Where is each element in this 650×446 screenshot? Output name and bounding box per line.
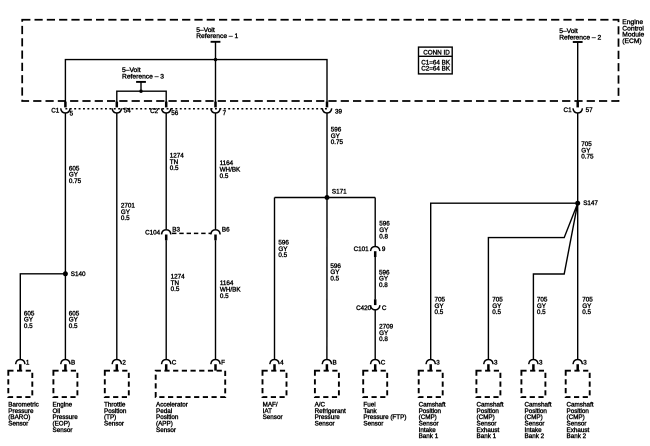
wire: S171 down to A/C refrigerant pressure sensor [326, 198, 328, 360]
A/C refrigerant pressure sensor [315, 371, 346, 428]
svg-text:5: 5 [70, 110, 74, 117]
wire 2701 GY 0.5 pin 54 to TP sensor [116, 113, 118, 360]
svg-text:0.75: 0.75 [331, 139, 344, 146]
svg-text:0.5: 0.5 [537, 309, 546, 316]
wire: bus tap down to pin 7 [215, 60, 217, 106]
wire 1164 WH/BK 0.5 pin 7 to C104 [215, 113, 217, 229]
svg-text:F: F [221, 360, 225, 367]
accelerator pedal position sensor pin F [211, 360, 225, 371]
wire 1164 WH/BK 0.5 C104 to APP pin F [215, 240, 217, 359]
label wire 605 GY 0.5 (EOP) [69, 310, 80, 330]
MAF/IAT sensor [263, 371, 287, 422]
CMP sensor exhaust bank 1 pin 3 [484, 360, 498, 371]
svg-text:Bank 1: Bank 1 [419, 433, 439, 440]
fuel tank pressure (FTP) sensor [363, 371, 406, 428]
svg-text:0.5: 0.5 [582, 309, 591, 316]
barometric pressure (BARO) sensor [8, 371, 38, 428]
pin 7 [211, 102, 227, 117]
svg-text:0.5: 0.5 [121, 215, 130, 222]
svg-text:Sensor: Sensor [363, 421, 383, 428]
svg-text:0.5: 0.5 [69, 323, 78, 330]
svg-text:3: 3 [436, 360, 440, 367]
label wire 596 GY 0.8 (above C101) [379, 221, 390, 241]
pin C1-57 [564, 102, 594, 114]
5-Volt Reference - 1 source [196, 27, 238, 42]
wire 596 GY 0.8 between C101 and C420 [374, 257, 376, 299]
svg-text:Reference – 3: Reference – 3 [122, 73, 164, 80]
svg-text:Sensor: Sensor [156, 427, 176, 434]
svg-text:54: 54 [124, 108, 132, 115]
wire 605 GY 0.75 from pin 5 to S140 [64, 113, 66, 274]
svg-text:Bank 2: Bank 2 [525, 433, 545, 440]
wire: S140 down to EOP sensor [64, 274, 66, 360]
dotted connector row line [65, 108, 327, 110]
label wire 2701 GY 0.5 [121, 203, 136, 223]
svg-text:0.8: 0.8 [379, 282, 388, 289]
wire: S140 branch to BARO sensor [20, 274, 65, 360]
label wire 1164 WH/BK 0.5 (lower) [220, 280, 241, 300]
label wire 605 GY 0.75 [69, 165, 82, 185]
svg-text:B: B [333, 360, 337, 367]
svg-text:C: C [172, 360, 177, 367]
label wire 705 GY 0.5 (CMP intake 2) [537, 297, 548, 317]
label wire 705 GY 0.5 (CMP intake 1) [435, 297, 446, 317]
svg-text:Sensor: Sensor [8, 421, 28, 428]
connector C104 pin B6 [211, 227, 230, 241]
pin 39 [322, 102, 342, 116]
svg-text:0.5: 0.5 [170, 165, 179, 172]
svg-text:3: 3 [494, 360, 498, 367]
svg-text:0.5: 0.5 [492, 309, 501, 316]
svg-text:0.5: 0.5 [220, 173, 229, 180]
svg-text:(ECM): (ECM) [622, 38, 641, 45]
wire 705 GY 0.75 pin 57 to S147 [577, 113, 579, 203]
svg-text:S171: S171 [332, 188, 347, 195]
svg-text:39: 39 [335, 108, 343, 115]
svg-text:0.5: 0.5 [278, 252, 287, 259]
svg-text:Sensor: Sensor [104, 421, 124, 428]
svg-text:C101: C101 [354, 246, 370, 253]
svg-text:S147: S147 [583, 200, 598, 207]
label wire 596 GY 0.5 (A/C) [330, 263, 341, 283]
svg-text:9: 9 [382, 246, 386, 253]
wire: S147 branch to CMP intake bank 1 [431, 203, 578, 359]
wire 2709 GY 0.8 C420 to FTP sensor [374, 310, 376, 360]
splice S171 [325, 188, 348, 200]
MAF/IAT sensor pin 4 [270, 360, 284, 371]
wire: S171 branch to C101 [374, 198, 376, 247]
5-Volt Reference - 2 source [559, 28, 601, 42]
connector C101 pin 9 [354, 246, 386, 257]
svg-text:Bank 2: Bank 2 [567, 433, 587, 440]
splice S140 [63, 271, 86, 278]
svg-text:0.5: 0.5 [435, 309, 444, 316]
ECM label text [622, 19, 644, 45]
camshaft position (CMP) sensor exhaust bank 2 [566, 371, 594, 440]
svg-text:3: 3 [583, 360, 587, 367]
svg-text:S140: S140 [71, 271, 86, 278]
camshaft position (CMP) sensor intake bank 1 [419, 371, 446, 440]
wire 1274 TN 0.5 C104 to APP pin C [165, 240, 167, 359]
label wire 1274 TN 0.5 (lower) [171, 274, 186, 294]
wire: ref-3 sub-bus to pins 54 and 56 [117, 91, 166, 106]
wire: ref-1 drop to bus [215, 42, 217, 60]
svg-text:Sensor: Sensor [53, 427, 73, 434]
svg-text:4: 4 [280, 360, 284, 367]
label wire 605 GY 0.5 (BARO) [24, 310, 35, 330]
wire: S147 down to CMP exhaust bank 2 [577, 203, 579, 359]
svg-text:C104: C104 [145, 230, 161, 237]
svg-text:C: C [381, 360, 386, 367]
svg-text:0.5: 0.5 [171, 286, 180, 293]
CMP sensor exhaust bank 2 pin 3 [573, 360, 587, 371]
wire: S171 branch to MAF/IAT [274, 198, 276, 360]
fuel tank pressure sensor pin C [371, 360, 386, 371]
wire 1274 TN 0.5 pin 56 to C104 [165, 113, 167, 229]
pin C1-5 [51, 102, 73, 118]
connector C104 dashed link [172, 232, 211, 234]
label wire 1274 TN 0.5 (upper) [170, 153, 185, 173]
engine oil pressure sensor pin B [61, 360, 76, 371]
throttle position (TP) sensor [104, 371, 129, 428]
pin 54 [112, 102, 131, 115]
wire: S147 branch to CMP intake bank 2 [533, 203, 577, 359]
svg-text:C1: C1 [51, 108, 60, 115]
5-Volt Reference - 3 source [122, 67, 164, 82]
svg-text:0.5: 0.5 [220, 293, 229, 300]
svg-text:0.75: 0.75 [69, 178, 82, 185]
svg-text:C2: C2 [150, 108, 159, 115]
wire 596 GY 0.75 pin 39 to S171 [326, 113, 328, 198]
connector C420 pin C [356, 299, 387, 312]
CMP sensor intake bank 2 pin 3 [529, 360, 543, 371]
svg-text:0.75: 0.75 [581, 154, 594, 161]
svg-text:Sensor: Sensor [315, 421, 335, 428]
junction on sub-bus [139, 90, 142, 93]
svg-text:0.8: 0.8 [379, 233, 388, 240]
svg-text:3: 3 [539, 360, 543, 367]
A/C refrigerant pressure sensor pin B [322, 360, 337, 371]
connector C104 pin B3 [145, 227, 180, 241]
svg-text:1: 1 [26, 360, 30, 367]
wire: internal 5v bus [65, 60, 327, 106]
svg-text:Reference – 2: Reference – 2 [559, 34, 601, 41]
splice S147 [575, 200, 598, 207]
label wire 705 GY 0.5 (CMP exhaust 2) [582, 297, 593, 317]
wire: S147 branch to CMP exhaust bank 1 [488, 203, 577, 359]
svg-text:B6: B6 [222, 227, 230, 234]
svg-text:0.8: 0.8 [379, 336, 388, 343]
svg-text:C: C [382, 305, 387, 312]
svg-text:C2=64 BK: C2=64 BK [421, 65, 451, 72]
svg-text:B3: B3 [172, 227, 180, 234]
svg-text:Bank 1: Bank 1 [477, 433, 497, 440]
label wire 1164 WH/BK 0.5 (upper) [220, 160, 241, 180]
engine oil pressure (EOP) sensor [53, 371, 79, 434]
accelerator pedal position sensor pin C [162, 360, 177, 371]
label wire 705 GY 0.5 (CMP exhaust 1) [492, 297, 503, 317]
svg-text:CONN ID: CONN ID [423, 50, 450, 57]
CMP sensor intake bank 1 pin 3 [426, 360, 440, 371]
pin C2-56 [150, 102, 179, 118]
svg-text:B: B [71, 360, 75, 367]
svg-text:Sensor: Sensor [263, 414, 283, 421]
camshaft position (CMP) sensor intake bank 2 [521, 371, 551, 440]
throttle position sensor pin 2 [112, 360, 126, 371]
svg-text:7: 7 [223, 110, 227, 117]
svg-text:2: 2 [122, 360, 126, 367]
wire: S171 horizontal distribution [275, 197, 376, 199]
wire: ref-3 drop [140, 82, 142, 91]
barometric pressure sensor pin 1 [16, 360, 30, 371]
svg-text:56: 56 [171, 110, 179, 117]
svg-text:C1: C1 [564, 107, 573, 114]
label wire 596 GY 0.5 (MAF) [278, 240, 289, 260]
CONN ID table [419, 47, 453, 74]
junction on bus at ref-1 tap [214, 58, 217, 61]
svg-text:C420: C420 [356, 305, 372, 312]
svg-text:0.5: 0.5 [330, 275, 339, 282]
accelerator pedal position (APP) sensor [156, 371, 226, 434]
wire: ref-2 drop to pin 57 [577, 42, 579, 106]
label wire 2709 GY 0.8 [379, 324, 394, 344]
ECM module dashed boundary box [22, 20, 618, 101]
camshaft position (CMP) sensor exhaust bank 1 [476, 371, 503, 440]
svg-text:57: 57 [586, 107, 594, 114]
svg-text:0.5: 0.5 [24, 323, 33, 330]
svg-text:Reference – 1: Reference – 1 [196, 33, 238, 40]
label wire 596 GY 0.75 [331, 127, 344, 147]
label wire 596 GY 0.8 (mid) [379, 269, 390, 289]
label wire 705 GY 0.75 [581, 141, 594, 161]
